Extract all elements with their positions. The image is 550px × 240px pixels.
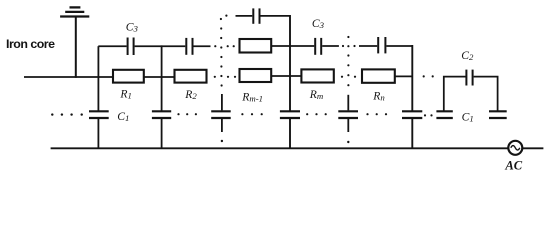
svg-text:Rm-1: Rm-1 [241,91,263,104]
svg-text:C3: C3 [312,17,325,30]
wire dotted node row R2..Rm-1 [214,76,236,78]
svg-text:C2: C2 [461,49,474,62]
wire C3 first to second [135,45,186,47]
wire from C3 third [322,45,339,47]
svg-text:R1: R1 [119,88,131,101]
wire dotted C1 row e-f [366,113,387,115]
wire ground riser [75,17,77,78]
capacitor (series, second) [185,38,187,55]
svg-text:C1: C1 [117,110,129,123]
svg-text:C1: C1 [462,110,474,123]
resistor (series element above Rm-1) [240,39,272,53]
node C vertical (from top cap row down) [289,15,291,111]
wire R1 to node B [144,76,175,78]
capacitor (series, fourth) [359,45,377,47]
wire C2 right [474,77,498,111]
capacitor C2 [465,70,467,86]
wire core/node line left [24,76,113,78]
wire node C to Rm [290,75,301,77]
dotted stem below floating C1 (e) [347,141,349,143]
wire C2 left [444,77,466,111]
wire rail right of AC [523,147,544,149]
capacitor C1 (g) [436,110,452,112]
wire dotted C1 row left lead [51,113,83,115]
dotted vertical continuation line (right) [347,36,349,86]
wire dotted C1 row d-e [306,113,327,115]
wire Rm-1 to node C [271,75,290,77]
capacitor C1 (a) [89,110,109,112]
resistor Rm-1 [240,69,272,82]
capacitor C1 (d) [280,110,300,112]
node D vertical [411,45,413,111]
svg-text:Iron core: Iron core [6,37,55,51]
capacitor C1 (f) [402,110,422,112]
capacitor C3 (third) [314,38,316,55]
resistor R1 [113,70,144,83]
dotted lead into top capacitor [225,15,227,17]
bottom ground rail [51,147,508,149]
capacitor C1 (e, floating) [347,95,349,111]
node A vertical (left C3 corner down through C1a) [97,46,99,110]
capacitor C1 (c, floating) [221,94,223,110]
wire dotted node row Rm..Rn [341,76,356,78]
node B vertical [161,45,163,110]
wire dotted series row [214,45,235,47]
wire from second cap [194,45,211,47]
ground [60,7,89,16]
wire series box to node C [271,45,314,47]
dotted vertical continuation line (left) [220,18,223,87]
resistor Rn [362,69,395,82]
svg-text:AC: AC [504,159,522,173]
wire dotted C1 row b-c [177,113,197,115]
wire dotted node row to C2 section [423,75,434,77]
capacitor C3 (first) [98,45,126,47]
svg-text:C3: C3 [126,21,139,34]
wire dotted series row near Rn [342,45,356,47]
resistor R2 [175,70,207,83]
capacitor C1 (h) [489,110,507,112]
AC source U1 [508,141,522,155]
svg-text:R2: R2 [184,88,197,101]
wire dotted C1 row c-d [241,113,263,115]
wire Rn to node D [395,75,413,77]
svg-text:Rm: Rm [309,88,323,101]
capacitor C1 (b) [152,110,171,112]
wire dotted C1 row f-g [424,114,433,116]
dotted stem below floating C1 (c) [221,140,223,142]
resistor Rm [301,69,333,82]
capacitor (top row) [236,15,253,17]
svg-text:Rn: Rn [372,89,385,102]
